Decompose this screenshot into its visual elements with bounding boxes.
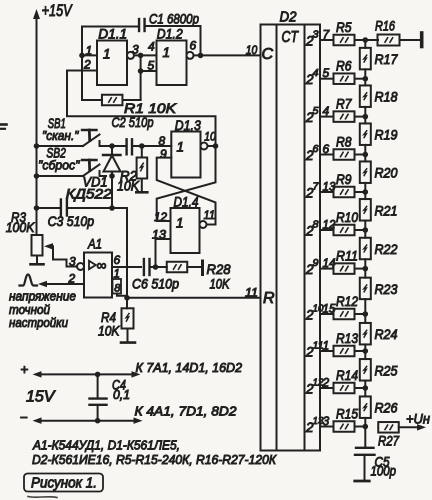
svg-text:3: 3 bbox=[132, 43, 139, 57]
svg-text:10K: 10K bbox=[117, 178, 140, 194]
svg-text:10K: 10K bbox=[98, 323, 120, 339]
svg-text:R13: R13 bbox=[336, 330, 358, 346]
svg-text:D1.4: D1.4 bbox=[174, 194, 199, 210]
svg-text:6: 6 bbox=[114, 253, 121, 267]
svg-text:R10: R10 bbox=[336, 209, 358, 225]
svg-text:6: 6 bbox=[323, 142, 330, 156]
svg-text:R27: R27 bbox=[378, 433, 400, 449]
svg-text:12: 12 bbox=[323, 218, 336, 232]
svg-text:6: 6 bbox=[190, 38, 197, 52]
svg-text:"сброс": "сброс" bbox=[38, 158, 81, 173]
svg-text:3: 3 bbox=[69, 255, 76, 269]
svg-text:11: 11 bbox=[245, 286, 258, 300]
svg-text:R20: R20 bbox=[375, 165, 398, 181]
svg-text:1: 1 bbox=[163, 45, 171, 60]
svg-text:R25: R25 bbox=[375, 362, 398, 378]
svg-text:R1 10K: R1 10K bbox=[124, 100, 177, 116]
svg-text:10: 10 bbox=[204, 130, 216, 144]
svg-text:Рисунок 1.: Рисунок 1. bbox=[31, 476, 97, 492]
svg-text:R9: R9 bbox=[336, 171, 352, 187]
svg-text:"скан.": "скан." bbox=[42, 128, 80, 143]
svg-text:5: 5 bbox=[313, 105, 319, 117]
svg-text:2: 2 bbox=[68, 272, 76, 286]
svg-text:R23: R23 bbox=[375, 281, 398, 297]
svg-text:3: 3 bbox=[313, 29, 319, 41]
svg-text:15V: 15V bbox=[26, 389, 56, 406]
svg-text:R11: R11 bbox=[336, 248, 358, 264]
svg-text:D1.2: D1.2 bbox=[157, 26, 183, 42]
svg-text:10K: 10K bbox=[210, 276, 231, 292]
svg-text:∞: ∞ bbox=[97, 257, 107, 273]
svg-text:R17: R17 bbox=[375, 51, 399, 67]
svg-text:5: 5 bbox=[323, 66, 330, 80]
svg-text:8: 8 bbox=[159, 134, 166, 148]
svg-text:12: 12 bbox=[154, 210, 167, 224]
svg-text:D2: D2 bbox=[280, 10, 297, 26]
svg-text:2: 2 bbox=[322, 376, 330, 390]
svg-text:0,1: 0,1 bbox=[113, 387, 130, 402]
svg-text:R14: R14 bbox=[336, 367, 358, 383]
svg-text:R24: R24 bbox=[375, 326, 398, 342]
svg-text:−: − bbox=[20, 410, 28, 425]
svg-text:R6: R6 bbox=[336, 58, 352, 74]
svg-text:1: 1 bbox=[176, 216, 184, 231]
svg-text:9: 9 bbox=[160, 147, 167, 161]
svg-text:R26: R26 bbox=[375, 400, 398, 416]
svg-text:+: + bbox=[21, 362, 29, 377]
svg-text:C3 510p: C3 510p bbox=[48, 213, 95, 229]
svg-text:R: R bbox=[263, 290, 275, 307]
svg-text:R5: R5 bbox=[336, 19, 352, 35]
svg-text:D1.1: D1.1 bbox=[98, 26, 127, 42]
svg-text:1: 1 bbox=[86, 44, 93, 58]
svg-text:R18: R18 bbox=[375, 89, 398, 105]
svg-text:C6 510p: C6 510p bbox=[132, 276, 179, 292]
svg-text:4: 4 bbox=[323, 104, 330, 118]
svg-text:C1 6800p: C1 6800p bbox=[149, 11, 199, 27]
svg-text:CT: CT bbox=[282, 29, 299, 46]
svg-text:+15V: +15V bbox=[42, 2, 74, 20]
svg-text:А1-К544УД1, D1-К561ЛЕ5,: А1-К544УД1, D1-К561ЛЕ5, bbox=[32, 438, 180, 453]
svg-text:R21: R21 bbox=[375, 202, 398, 218]
svg-text:настройки: настройки bbox=[9, 315, 68, 330]
svg-text:R7: R7 bbox=[336, 96, 353, 112]
svg-text:К 7А1, 14D1, 16D2: К 7А1, 14D1, 16D2 bbox=[136, 360, 243, 375]
svg-text:A1: A1 bbox=[87, 236, 102, 252]
svg-text:+Uн: +Uн bbox=[406, 411, 430, 427]
svg-text:100K: 100K bbox=[6, 219, 35, 235]
svg-text:100p: 100p bbox=[371, 463, 397, 479]
svg-text:6: 6 bbox=[313, 143, 319, 155]
svg-text:D1.3: D1.3 bbox=[175, 117, 201, 133]
svg-text:R19: R19 bbox=[375, 127, 398, 143]
svg-text:R16: R16 bbox=[375, 17, 395, 33]
svg-text:8: 8 bbox=[313, 219, 319, 231]
svg-text:К 4А1, 7D1, 8D2: К 4А1, 7D1, 8D2 bbox=[135, 404, 238, 419]
svg-text:14: 14 bbox=[323, 256, 336, 270]
svg-text:R8: R8 bbox=[336, 134, 352, 150]
svg-text:10: 10 bbox=[246, 43, 258, 57]
svg-text:D2-К561ИЕ16, R5-R15-240К, R16-: D2-К561ИЕ16, R5-R15-240К, R16-R27-120К bbox=[32, 452, 277, 467]
svg-text:4: 4 bbox=[148, 39, 155, 53]
svg-text:9: 9 bbox=[313, 257, 319, 269]
svg-text:3: 3 bbox=[323, 414, 330, 428]
svg-text:15: 15 bbox=[323, 302, 336, 316]
svg-text:2: 2 bbox=[83, 57, 91, 71]
svg-text:1: 1 bbox=[177, 140, 185, 155]
svg-text:R15: R15 bbox=[336, 406, 358, 422]
svg-text:R12: R12 bbox=[336, 293, 358, 309]
svg-text:R22: R22 bbox=[375, 241, 398, 257]
svg-text:КД522: КД522 bbox=[66, 186, 112, 202]
svg-text:4: 4 bbox=[313, 67, 319, 79]
svg-text:1: 1 bbox=[103, 47, 111, 62]
svg-text:13: 13 bbox=[323, 180, 336, 194]
svg-text:C: C bbox=[262, 46, 274, 63]
svg-text:11: 11 bbox=[204, 208, 216, 222]
svg-text:1: 1 bbox=[323, 339, 330, 353]
